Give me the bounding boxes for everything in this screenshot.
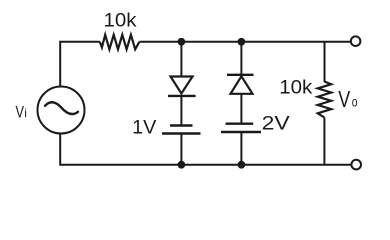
battery B2 2V (short plate top, long plate bottom) — [221, 124, 261, 132]
wire top horizontal (R1 to output terminal) — [139, 41, 350, 43]
svg-text:o: o — [352, 95, 358, 110]
wire R2 to bottom wire — [323, 118, 325, 165]
wire bottom horizontal — [60, 164, 351, 166]
svg-text:2V: 2V — [262, 113, 290, 135]
battery B1 1V (short plate top, long plate bottom) — [162, 126, 201, 134]
junction dot top node A (D1 top) — [178, 38, 186, 46]
svg-text:V: V — [338, 86, 351, 112]
wire load branch top (top wire to R2) — [324, 42, 326, 82]
wire branch D1 top (top wire to diode D1) — [180, 42, 182, 77]
svg-text:V: V — [16, 103, 25, 121]
wire D1 cathode to battery 1V — [180, 96, 182, 126]
output terminal top (open circle) — [351, 36, 361, 46]
label Vo for output voltage — [338, 86, 357, 112]
wire battery 1V to bottom wire — [180, 134, 182, 165]
label 10k for R2 — [279, 76, 312, 98]
resistor R1 10k (horizontal zigzag) — [100, 35, 140, 50]
wire branch D2 top (top wire to diode D2) — [240, 42, 242, 75]
junction dot bottom node B (B2 bottom) — [238, 161, 246, 169]
wire D2 anode to battery 2V — [240, 94, 242, 124]
wire battery 2V to bottom wire — [240, 132, 242, 165]
diode D1 (cathode down) — [168, 77, 196, 96]
diode D2 (cathode up) — [227, 75, 254, 94]
wire top-left horizontal (source to R1) — [60, 41, 100, 43]
junction dot top node B (D2 top) — [238, 38, 246, 46]
wire left vertical (top wire to source Vi) — [59, 41, 61, 87]
label 1V for battery B1 — [132, 117, 156, 139]
source Vi (sine-wave voltage source) — [38, 87, 85, 134]
svg-text:1V: 1V — [132, 117, 156, 139]
junction dot bottom node A (B1 bottom) — [178, 161, 186, 169]
label 10k for R1 — [104, 10, 137, 32]
svg-text:10k: 10k — [104, 10, 137, 32]
svg-text:i: i — [24, 106, 27, 120]
label 2V for battery B2 — [262, 113, 290, 135]
wire left vertical (source Vi to bottom wire) — [59, 134, 61, 166]
svg-text:10k: 10k — [279, 76, 312, 98]
resistor R2 10k (vertical zigzag load) — [318, 82, 332, 118]
label vi for source — [16, 103, 27, 121]
output terminal bottom (open circle) — [351, 160, 361, 170]
